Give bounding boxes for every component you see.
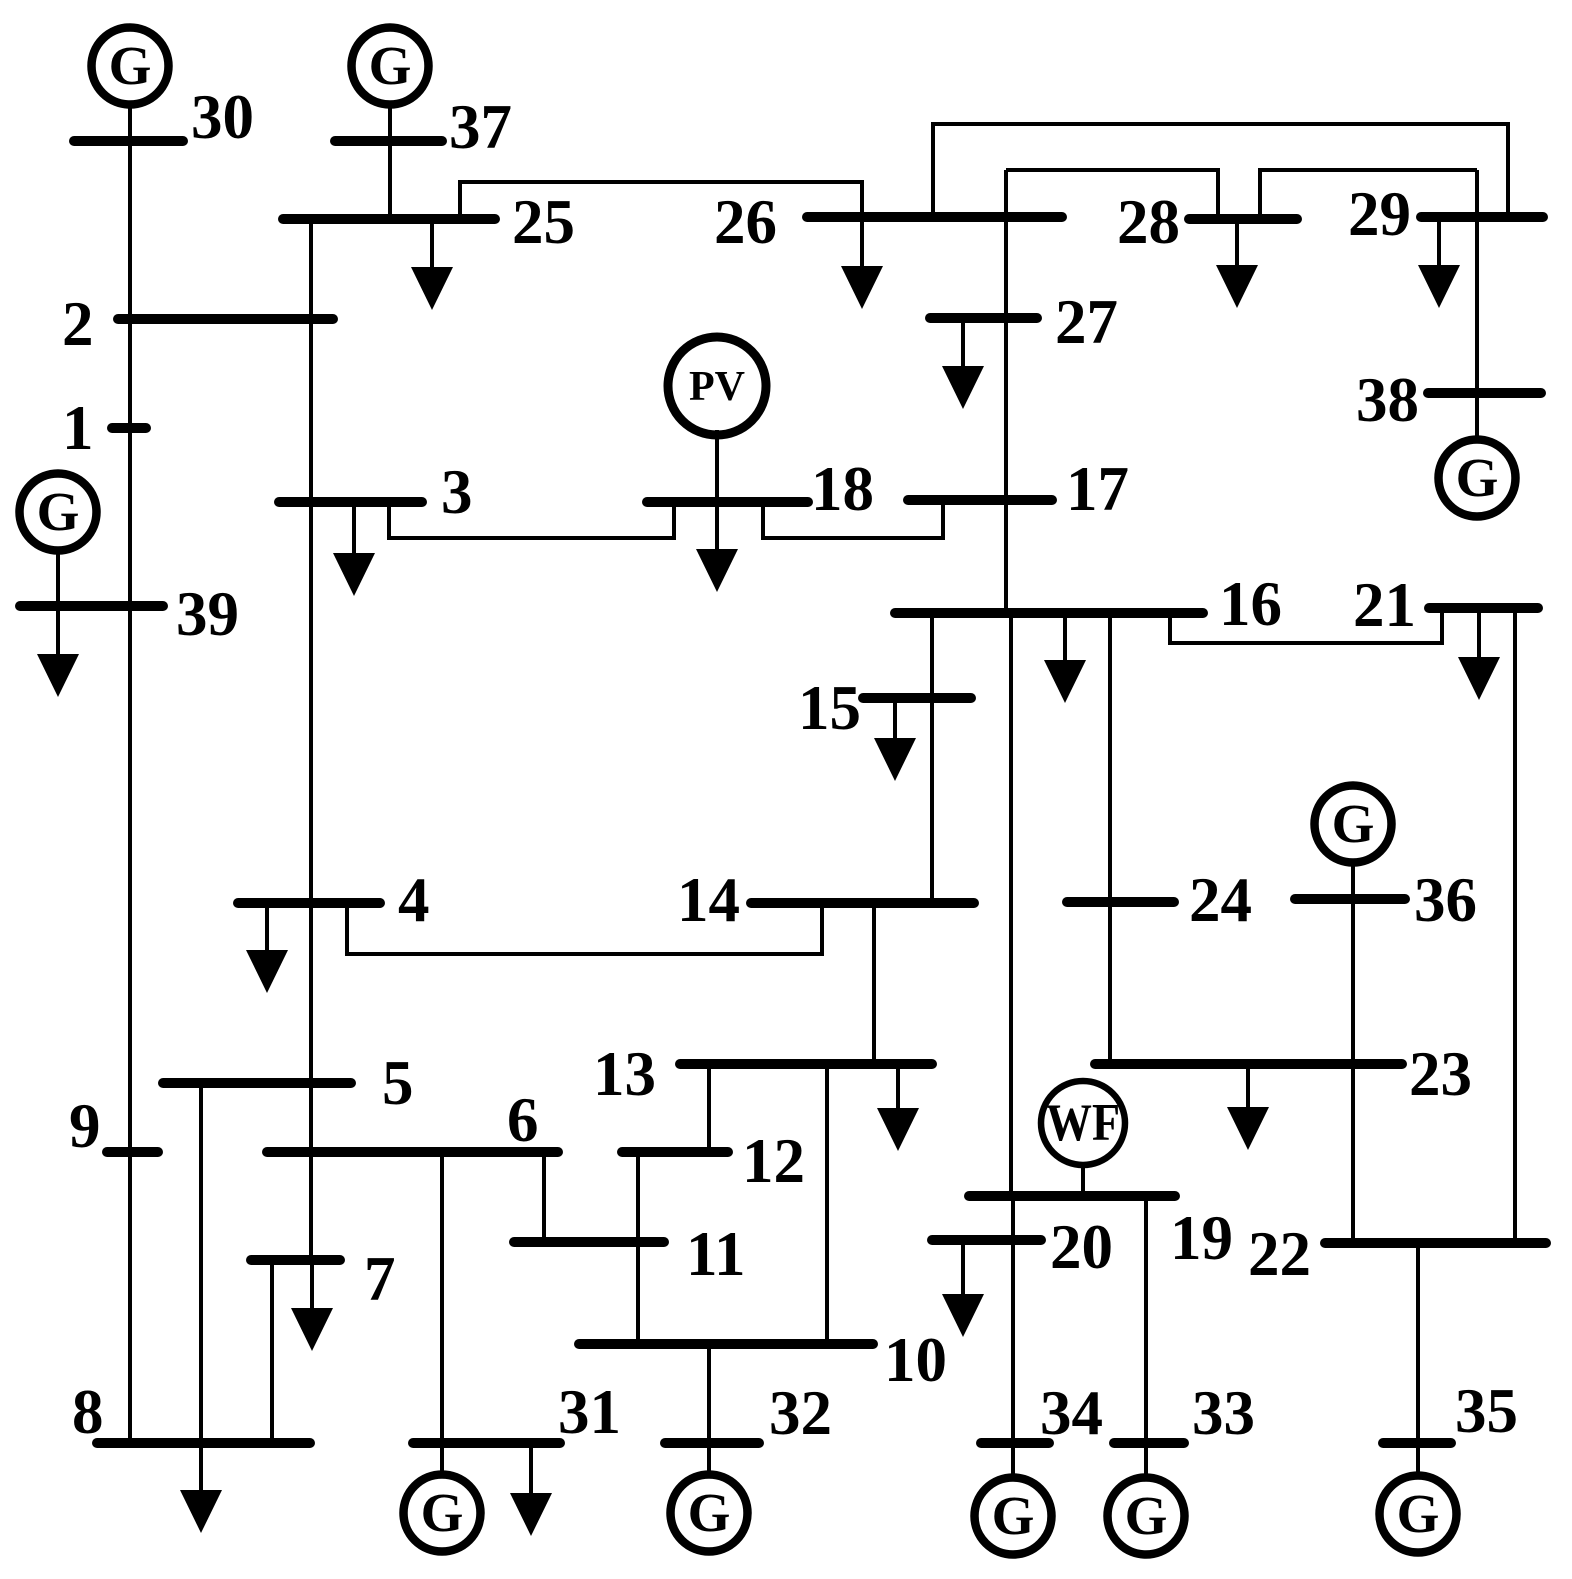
bus 21 (1429, 603, 1538, 613)
wire WF to bus 19 (1081, 1162, 1085, 1196)
load arrow bus 29 (1418, 265, 1460, 308)
svg-text:9: 9 (69, 1091, 101, 1161)
bus 30 (74, 136, 183, 146)
bus 18 (647, 497, 808, 507)
wire G37 to bus 37 to bus 25 (388, 108, 392, 219)
bus 34 (981, 1438, 1049, 1448)
load arrow bus 4 (246, 950, 288, 993)
bus 25 (283, 214, 495, 224)
bus 12 (622, 1147, 728, 1157)
wire 29-38 and G38 (1475, 170, 1479, 436)
bus 11 (514, 1237, 664, 1247)
bus 3 (279, 497, 422, 507)
bus 22 (1325, 1238, 1546, 1248)
wire 21-22 vertical (1513, 612, 1517, 1243)
bus 2 (118, 314, 333, 324)
bus 8 (97, 1438, 310, 1448)
svg-text:26: 26 (714, 187, 777, 257)
load arrow bus 29 stem (1437, 222, 1441, 265)
wire 6-11 (542, 1154, 546, 1242)
bus 17 (908, 495, 1052, 505)
bus 32 (665, 1438, 759, 1448)
load arrow bus 7 (291, 1308, 333, 1351)
wire G36 to bus 36 to bus 23 (1351, 866, 1355, 1064)
wire 26-27-17-16 vertical (1004, 170, 1008, 617)
bus 5 (163, 1078, 351, 1088)
load arrow bus 16 (1044, 660, 1086, 703)
load arrow bus 8 (180, 1490, 222, 1533)
svg-text:31: 31 (558, 1377, 621, 1447)
svg-text:6: 6 (507, 1085, 539, 1155)
wire 4-14 (347, 905, 822, 954)
load arrow bus 28 stem (1235, 224, 1239, 265)
bus 23 (1095, 1059, 1402, 1069)
wire 16-21 (1170, 610, 1442, 643)
bus 39 (20, 601, 163, 611)
svg-text:G: G (1456, 447, 1499, 508)
load arrow bus 3 (333, 553, 375, 596)
generator G38 (1439, 440, 1516, 517)
wire PV to bus 18 and load stem (715, 430, 719, 549)
wire 12-11-10 (636, 1154, 640, 1344)
svg-text:2: 2 (62, 289, 94, 359)
svg-text:22: 22 (1248, 1219, 1311, 1289)
generator G35 (1380, 1476, 1457, 1553)
bus 29 (1421, 212, 1543, 222)
generator G32 (671, 1475, 748, 1552)
wire 25-26 (460, 182, 862, 266)
generator G33 (1108, 1478, 1185, 1555)
bus 6 (267, 1147, 558, 1157)
wire 22-35 and G35 (1416, 1245, 1420, 1472)
wire 7-8 (270, 1262, 274, 1443)
svg-text:18: 18 (811, 454, 874, 524)
generator G39 (20, 474, 97, 551)
bus 36 (1295, 894, 1405, 904)
bus 9 (107, 1147, 158, 1157)
svg-text:17: 17 (1066, 454, 1129, 524)
svg-text:G: G (688, 1482, 731, 1543)
load arrow bus 31 (510, 1493, 552, 1536)
bus 16 (895, 608, 1203, 618)
wire 14-15-16 vertical (930, 615, 934, 903)
svg-text:19: 19 (1170, 1203, 1233, 1273)
bus 4 (238, 898, 380, 908)
svg-text:37: 37 (449, 92, 512, 162)
load arrow bus 15 (874, 738, 916, 781)
svg-text:14: 14 (677, 865, 740, 935)
svg-text:G: G (1397, 1483, 1440, 1544)
bus 14 (751, 898, 974, 908)
load arrow bus 31 stem (529, 1448, 533, 1493)
svg-text:11: 11 (686, 1219, 746, 1289)
bus 37 (335, 136, 442, 146)
bus 15 (863, 693, 971, 703)
svg-text:8: 8 (72, 1377, 104, 1447)
svg-text:15: 15 (798, 673, 861, 743)
load arrow bus 3 stem (352, 507, 356, 553)
load arrow bus 15 stem (893, 703, 897, 738)
load arrow bus 13 stem (896, 1068, 900, 1108)
wire 26-29 (933, 124, 1508, 217)
svg-text:23: 23 (1409, 1039, 1472, 1109)
svg-text:PV: PV (689, 364, 745, 410)
load arrow bus 20 stem (961, 1245, 965, 1294)
svg-text:13: 13 (593, 1039, 656, 1109)
svg-text:G: G (109, 35, 152, 96)
wire 3-18 (389, 505, 674, 538)
svg-text:5: 5 (382, 1048, 414, 1118)
bus 7 (251, 1255, 340, 1265)
generator G37 (352, 28, 429, 105)
svg-text:38: 38 (1356, 365, 1419, 435)
load arrow bus 23 (1227, 1107, 1269, 1150)
svg-text:4: 4 (398, 865, 430, 935)
svg-text:G: G (421, 1482, 464, 1543)
generator G30 (92, 28, 169, 105)
svg-text:WF: WF (1046, 1094, 1120, 1152)
svg-text:10: 10 (884, 1325, 947, 1395)
svg-text:35: 35 (1455, 1376, 1518, 1446)
wire 16-24-23 vertical (1108, 615, 1112, 1064)
generator WF (1041, 1081, 1125, 1165)
svg-text:G: G (1332, 793, 1375, 854)
bus 10 (579, 1339, 873, 1349)
wire 14-13 (872, 905, 876, 1064)
load arrow bus 28 (1216, 265, 1258, 308)
bus 24 (1067, 897, 1174, 907)
wire 25-2-3-4-5-6-7 chain vertical (309, 219, 313, 1260)
load arrow bus 25 (411, 267, 453, 310)
wire 28-29 (1260, 170, 1477, 219)
load arrow bus 4 stem (265, 908, 269, 950)
svg-text:24: 24 (1189, 865, 1252, 935)
svg-text:7: 7 (364, 1244, 396, 1314)
wire 16-19-20 vertical (1009, 611, 1013, 1200)
svg-text:G: G (369, 35, 412, 96)
svg-text:G: G (1125, 1485, 1168, 1546)
svg-text:21: 21 (1353, 570, 1416, 640)
load arrow bus 26 (841, 266, 883, 309)
bus 26 (807, 212, 1062, 222)
load arrow bus 7 stem (310, 1264, 314, 1308)
load arrow bus 16 stem (1063, 618, 1067, 660)
svg-text:1: 1 (62, 393, 94, 463)
load arrow bus 21 (1458, 657, 1500, 700)
svg-text:34: 34 (1040, 1378, 1103, 1448)
wire 10-32 and G32 (707, 1346, 711, 1472)
wire 6-31 and G31 (440, 1154, 444, 1472)
svg-text:32: 32 (769, 1378, 832, 1448)
svg-text:G: G (37, 481, 80, 542)
svg-text:28: 28 (1117, 187, 1180, 257)
bus 13 (680, 1059, 932, 1069)
load arrow bus 21 stem (1477, 612, 1481, 657)
bus 1 (112, 423, 146, 433)
svg-text:12: 12 (742, 1126, 805, 1196)
load arrow bus 20 (942, 1294, 984, 1337)
bus 19 (969, 1191, 1175, 1201)
bus 20 (932, 1235, 1041, 1245)
svg-text:20: 20 (1050, 1212, 1113, 1282)
bus 31 (413, 1438, 560, 1448)
svg-text:3: 3 (441, 457, 473, 527)
svg-text:25: 25 (512, 187, 575, 257)
load arrow bus 39 (37, 654, 79, 697)
load arrow bus 23 stem (1246, 1068, 1250, 1107)
svg-text:33: 33 (1192, 1378, 1255, 1448)
svg-text:36: 36 (1414, 865, 1477, 935)
bus 27 (930, 313, 1037, 323)
wire 13-12 (707, 1066, 711, 1152)
bus 28 (1189, 214, 1297, 224)
wire 13-10 (825, 1066, 829, 1344)
svg-text:30: 30 (191, 82, 254, 152)
load arrow bus 25 stem (430, 224, 434, 267)
load arrow bus 27 (942, 366, 984, 409)
wire 20-34 vertical (1011, 1194, 1015, 1475)
wire 30-2-1-39-9-8 main left vertical (128, 108, 132, 1443)
bus 35 (1383, 1438, 1451, 1448)
generator G36 (1315, 786, 1392, 863)
svg-text:27: 27 (1055, 287, 1118, 357)
load arrow bus 13 (877, 1108, 919, 1151)
bus 33 (1114, 1438, 1184, 1448)
generator G31 (404, 1475, 481, 1552)
wire 18-17 (763, 503, 943, 538)
wire 19-33 and G33 (1144, 1198, 1148, 1475)
wire G39 to bus 39 and load stem (56, 554, 60, 654)
wire 5-8 and bus 8 load stem (199, 1088, 203, 1490)
load arrow bus 27 stem (961, 323, 965, 366)
generator G34 (975, 1478, 1052, 1555)
svg-text:G: G (992, 1485, 1035, 1546)
generator PV (668, 337, 766, 435)
load arrow bus 18 (696, 549, 738, 592)
svg-text:16: 16 (1219, 569, 1282, 639)
wire 26-28 (1006, 170, 1218, 219)
bus 38 (1428, 388, 1541, 398)
wire 23-22 (1351, 1064, 1355, 1243)
svg-text:39: 39 (176, 579, 239, 649)
svg-text:29: 29 (1348, 179, 1411, 249)
